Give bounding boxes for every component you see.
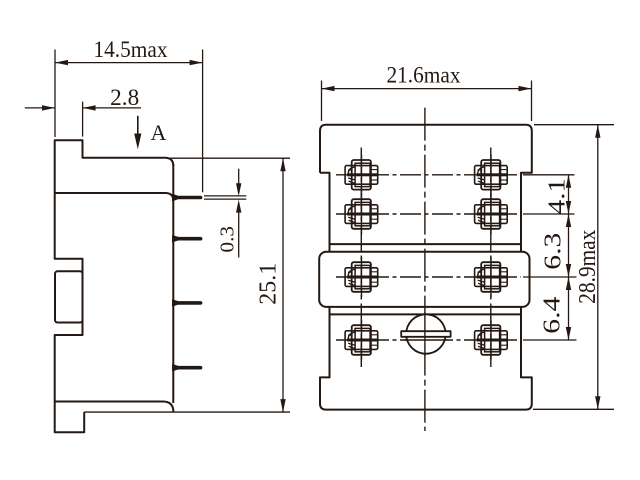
dimension 14.5max: dimension line <box>55 62 203 64</box>
terminal screw row1 left <box>345 155 378 196</box>
row 3 extension line <box>523 276 577 278</box>
left view: mounting base line <box>84 411 290 413</box>
row 4 center line <box>336 339 521 341</box>
dimension 4.1: dimension line <box>568 175 570 214</box>
right view: lower seam line <box>330 313 522 315</box>
dimension 21.6max: extension lines <box>321 81 323 122</box>
pin 2 <box>173 236 202 242</box>
right view: upper-left step edge <box>320 173 330 252</box>
row 3 center line <box>336 276 521 278</box>
section arrow A <box>137 116 139 135</box>
terminal screw row1 right <box>475 155 508 196</box>
left view: cap seam line <box>55 193 174 201</box>
dimension 28.9max: top extension line <box>534 124 614 126</box>
terminal screw row4 right <box>475 320 508 361</box>
row 2 extension line <box>523 213 575 215</box>
pin 1 thickness extension lines <box>204 195 246 197</box>
svg-text:0.3: 0.3 <box>216 226 238 253</box>
row 1 center line <box>336 174 521 176</box>
dimension 6.3: dimension line <box>568 214 570 277</box>
svg-text:6.3: 6.3 <box>540 233 566 270</box>
dimension 21.6max: dimension line <box>322 88 532 90</box>
center screw slot <box>401 331 450 337</box>
dimension 25.1: top extension line <box>170 157 290 159</box>
left screw column center line <box>360 148 362 368</box>
left view: body right edge <box>172 164 174 403</box>
right view: middle band <box>319 252 529 307</box>
svg-text:25.1: 25.1 <box>256 263 282 305</box>
row 4 chord through circle <box>404 339 446 341</box>
svg-text:21.6max: 21.6max <box>387 63 461 88</box>
pin 3 <box>173 300 202 306</box>
pin 1 <box>173 194 202 200</box>
center mounting screw circle <box>406 314 445 353</box>
terminal screw row3 left <box>345 257 378 298</box>
center line segment through circle <box>424 313 426 357</box>
terminal screw row2 left <box>345 194 378 235</box>
right view: top cap outline <box>320 125 532 252</box>
terminal screw row3 right <box>475 257 508 298</box>
right view: lower body and bottom outline <box>320 307 532 410</box>
terminal screw row2 right <box>475 194 508 235</box>
svg-text:6.4: 6.4 <box>539 297 565 334</box>
svg-text:28.9max: 28.9max <box>575 230 601 304</box>
dimension 25.1: dimension line <box>282 158 284 412</box>
left view: side latch tab <box>55 271 83 322</box>
dimension 0.3: vertical line with outside arrows <box>238 169 240 184</box>
dimension 28.9max: dimension line <box>597 125 599 410</box>
right view: upper seam line <box>330 243 522 245</box>
row 1 extension line <box>523 174 575 176</box>
right screw column center line <box>490 148 492 368</box>
svg-text:14.5max: 14.5max <box>94 37 168 62</box>
row 4 extension line <box>523 339 577 341</box>
svg-text:2.8: 2.8 <box>110 85 139 110</box>
row 2 center line <box>336 213 521 215</box>
dimension 28.9max: bottom extension line <box>533 408 614 410</box>
left view: body left and top outline <box>55 140 174 432</box>
terminal screw row4 left <box>345 320 378 361</box>
pin 4 <box>173 365 202 371</box>
left view: bottom ledge with rounded tongue <box>55 402 174 413</box>
dimension 2.8: right extension line <box>82 102 84 137</box>
dimension 2.8: dimension lines with outside arrows <box>25 107 55 109</box>
svg-text:A: A <box>150 120 166 145</box>
dimension 14.5max: extension lines <box>54 50 56 138</box>
dimension 6.4: dimension line <box>568 277 570 340</box>
vertical center line <box>424 108 426 431</box>
svg-text:4.1: 4.1 <box>544 178 570 214</box>
